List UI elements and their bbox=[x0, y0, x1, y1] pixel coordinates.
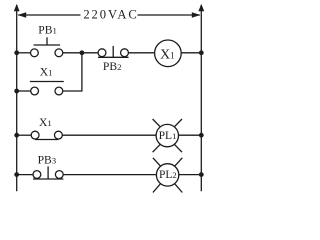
power rail L1 (left vertical rail) bbox=[14, 4, 20, 191]
node junction dot on L1 at rung2 bbox=[14, 133, 19, 138]
wire rung3: L1 to PB3 bbox=[17, 174, 33, 176]
node junction dot on L1 at rung3 bbox=[14, 172, 19, 177]
svg-text:PB3: PB3 bbox=[38, 153, 57, 166]
svg-text:220VAC: 220VAC bbox=[83, 8, 138, 22]
svg-text:PL1: PL1 bbox=[159, 130, 177, 142]
wire rung1: coil X1 to L2 bbox=[181, 52, 201, 54]
pushbutton PB2 (normally closed) bbox=[98, 46, 129, 57]
contact X1 (holding, parallel with PB1) bbox=[30, 82, 64, 95]
node junction dot on L2 at rung3 bbox=[199, 172, 204, 177]
pushbutton PB3 (normally closed) bbox=[33, 166, 63, 179]
svg-text:PB1: PB1 bbox=[38, 24, 57, 37]
wire rung3: PL2 to L2 bbox=[179, 174, 202, 176]
node junction dot on L2 at rung2 bbox=[199, 133, 204, 138]
node junction dot on L1 at rung1 bbox=[14, 50, 19, 55]
dimension line 220VAC left segment with arrowhead bbox=[18, 12, 81, 17]
contact X1 (rung2) bbox=[31, 131, 62, 139]
wire branch: L1 to X1 holding contact bbox=[17, 90, 31, 92]
wire rung2: contact X1 to PL1 bbox=[62, 134, 156, 136]
wire branch right side up to rung1 bbox=[63, 53, 82, 91]
relay coil X1 bbox=[155, 40, 182, 67]
pushbutton PB1 (normally open) bbox=[31, 37, 63, 56]
wire rung2: L1 to contact X1 bbox=[17, 134, 32, 136]
svg-text:X1: X1 bbox=[40, 65, 53, 78]
power rail L2 (right vertical rail) bbox=[198, 4, 204, 191]
node junction dot rung1 branch point bbox=[80, 50, 85, 55]
svg-text:PL2: PL2 bbox=[159, 169, 177, 181]
wire rung2: PL1 to L2 bbox=[179, 134, 202, 136]
wire rung1: PB1 to PB2 bbox=[63, 52, 98, 54]
svg-text:X1: X1 bbox=[39, 116, 52, 129]
node junction dot on L2 at rung1 bbox=[199, 50, 204, 55]
wire rung1: L1 to PB1 bbox=[17, 52, 31, 54]
wire rung3: PB3 to PL2 bbox=[63, 174, 156, 176]
svg-text:PB2: PB2 bbox=[103, 60, 122, 73]
pilot light PL1 bbox=[153, 119, 182, 152]
pilot light PL2 bbox=[153, 158, 182, 193]
wire rung1: PB2 to coil X1 bbox=[128, 52, 154, 54]
node junction dot on L1 at branch bbox=[14, 89, 19, 94]
dimension line 220VAC right segment with arrowhead bbox=[138, 12, 201, 17]
